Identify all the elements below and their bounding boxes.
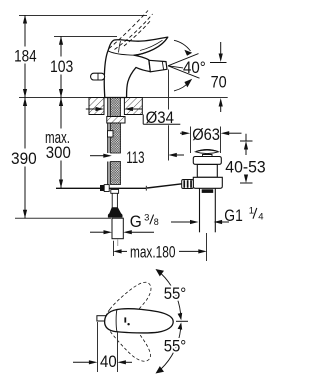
- drain collar: [193, 177, 222, 188]
- deck top reference line: [19, 97, 228, 99]
- locknut below deck: [107, 117, 125, 124]
- extension line from aerator: [168, 70, 170, 110]
- mounting shank lower segment: [111, 162, 121, 185]
- dim 390: [24, 98, 26, 219]
- handle top view solid: [97, 309, 173, 333]
- svg-text:70: 70: [211, 73, 227, 92]
- supply hose: [112, 218, 123, 239]
- rod clevis: [100, 185, 109, 192]
- 103 reference line: [54, 36, 117, 38]
- dim 40-53: [225, 134, 265, 183]
- dashed handle rotated down 55deg: [101, 308, 157, 366]
- aerator ball joint: [149, 60, 167, 72]
- G3/8 flare nut: [108, 207, 123, 217]
- hose centerline: [117, 240, 119, 247]
- svg-text:40: 40: [100, 352, 117, 371]
- svg-text:40-53: 40-53: [225, 157, 265, 176]
- deck left block: [89, 98, 104, 115]
- dim Ø63: [180, 125, 242, 153]
- svg-text:55°: 55°: [164, 284, 187, 303]
- svg-text:8: 8: [154, 217, 159, 227]
- temp indicator marks: [124, 317, 129, 325]
- arc up 55deg: [156, 269, 183, 320]
- horizontal pop-up linkage rod: [56, 184, 182, 191]
- svg-text:3: 3: [144, 213, 149, 224]
- faucet body: [104, 37, 168, 97]
- svg-text:113: 113: [126, 148, 144, 167]
- dashed handle rotated up 55deg: [100, 276, 156, 334]
- svg-text:184: 184: [14, 46, 37, 65]
- dim 113: [90, 148, 184, 167]
- pop-up drain plug: [196, 149, 219, 157]
- swivel arc upper: [174, 40, 192, 56]
- spray fan lines: [168, 54, 200, 79]
- rod knob on drain: [182, 180, 194, 189]
- svg-text:G1: G1: [224, 207, 243, 225]
- dim 40 bottom view: [73, 322, 132, 372]
- drain flange: [193, 157, 221, 165]
- pop-up rod lower: [107, 162, 109, 186]
- svg-text:G: G: [130, 213, 142, 231]
- dim 103: [60, 36, 62, 97]
- swivel arc lower: [174, 79, 192, 91]
- deck right block: [124, 98, 142, 115]
- dim Ø34 arrows: [86, 107, 143, 111]
- arc down 55deg: [156, 322, 183, 373]
- raised handle (dashed): [109, 11, 153, 50]
- drain neck: [197, 165, 217, 178]
- svg-text:Ø63: Ø63: [192, 125, 220, 144]
- rod bead: [108, 131, 114, 137]
- handle underside line: [134, 37, 168, 55]
- svg-text:300: 300: [46, 143, 71, 162]
- pop-up knob on body: [91, 73, 105, 80]
- svg-text:max.180: max.180: [130, 243, 176, 262]
- drain tailpipe: [200, 188, 216, 232]
- svg-text:390: 390: [11, 149, 37, 168]
- mounting shank upper segment: [111, 98, 121, 154]
- dim 184: [24, 15, 26, 98]
- svg-text:40°: 40°: [183, 58, 206, 77]
- svg-text:55°: 55°: [164, 337, 187, 356]
- handle scoop inner line: [140, 40, 163, 50]
- body crease: [108, 51, 134, 55]
- dim max.300: [60, 98, 62, 189]
- svg-text:1: 1: [249, 206, 254, 217]
- dim 70: [210, 42, 227, 112]
- svg-text:103: 103: [50, 57, 73, 76]
- handle front crease: [119, 41, 121, 53]
- label G1 1/4: [171, 206, 264, 225]
- label G3/8: [90, 213, 159, 235]
- hose-end reference line: [15, 217, 111, 219]
- svg-text:Ø34: Ø34: [146, 108, 174, 127]
- label Ø34: [143, 108, 180, 127]
- svg-text:4: 4: [258, 212, 263, 223]
- pop-up rod upper: [107, 98, 109, 154]
- handle ref dash: [176, 320, 188, 322]
- top reference line: [19, 15, 147, 17]
- supply tube below clevis: [111, 190, 119, 208]
- dim max.180: [113, 233, 207, 262]
